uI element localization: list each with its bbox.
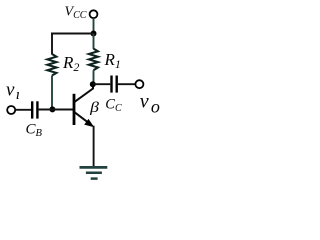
svg-text:R1: R1: [104, 50, 121, 71]
wire left branch lower: [51, 76, 53, 110]
node VCC terminal circle: [90, 10, 98, 18]
wire CC to output: [118, 83, 135, 85]
svg-text:R2: R2: [62, 53, 79, 74]
wire emitter to ground: [93, 126, 95, 167]
transistor Q1 emitter line with arrow: [75, 112, 92, 125]
wire top horizontal: [51, 33, 94, 35]
svg-text:vo: vo: [140, 91, 160, 117]
output terminal circle vo: [135, 80, 143, 88]
wire collector node to CC: [93, 83, 111, 85]
svg-text:VCC: VCC: [65, 4, 87, 21]
label beta: [89, 98, 100, 115]
junction dot collector node: [90, 81, 96, 87]
input terminal circle vi: [7, 106, 15, 114]
transistor Q1 emitter arrowhead: [84, 119, 94, 127]
resistor R1: [89, 49, 98, 71]
capacitor CC: [110, 76, 112, 93]
svg-text:CB: CB: [26, 122, 43, 140]
wire input to CB: [16, 109, 31, 111]
wire left branch upper: [51, 33, 53, 55]
svg-text:CC: CC: [105, 96, 122, 114]
junction dot top: [91, 31, 97, 37]
wire VCC circle to top junction: [93, 18, 95, 33]
transistor Q1 collector line: [75, 84, 94, 102]
junction dot base node: [49, 106, 55, 112]
capacitor CB: [31, 101, 33, 118]
svg-text:vı: vı: [6, 80, 20, 103]
wire CB to base: [39, 109, 74, 111]
svg-text:β: β: [89, 98, 100, 115]
wire R1 branch lower: [93, 70, 95, 84]
resistor R2: [47, 54, 56, 76]
ground: [80, 166, 108, 169]
wire R1 branch upper: [93, 34, 95, 50]
transistor Q1 base bar: [73, 94, 76, 125]
